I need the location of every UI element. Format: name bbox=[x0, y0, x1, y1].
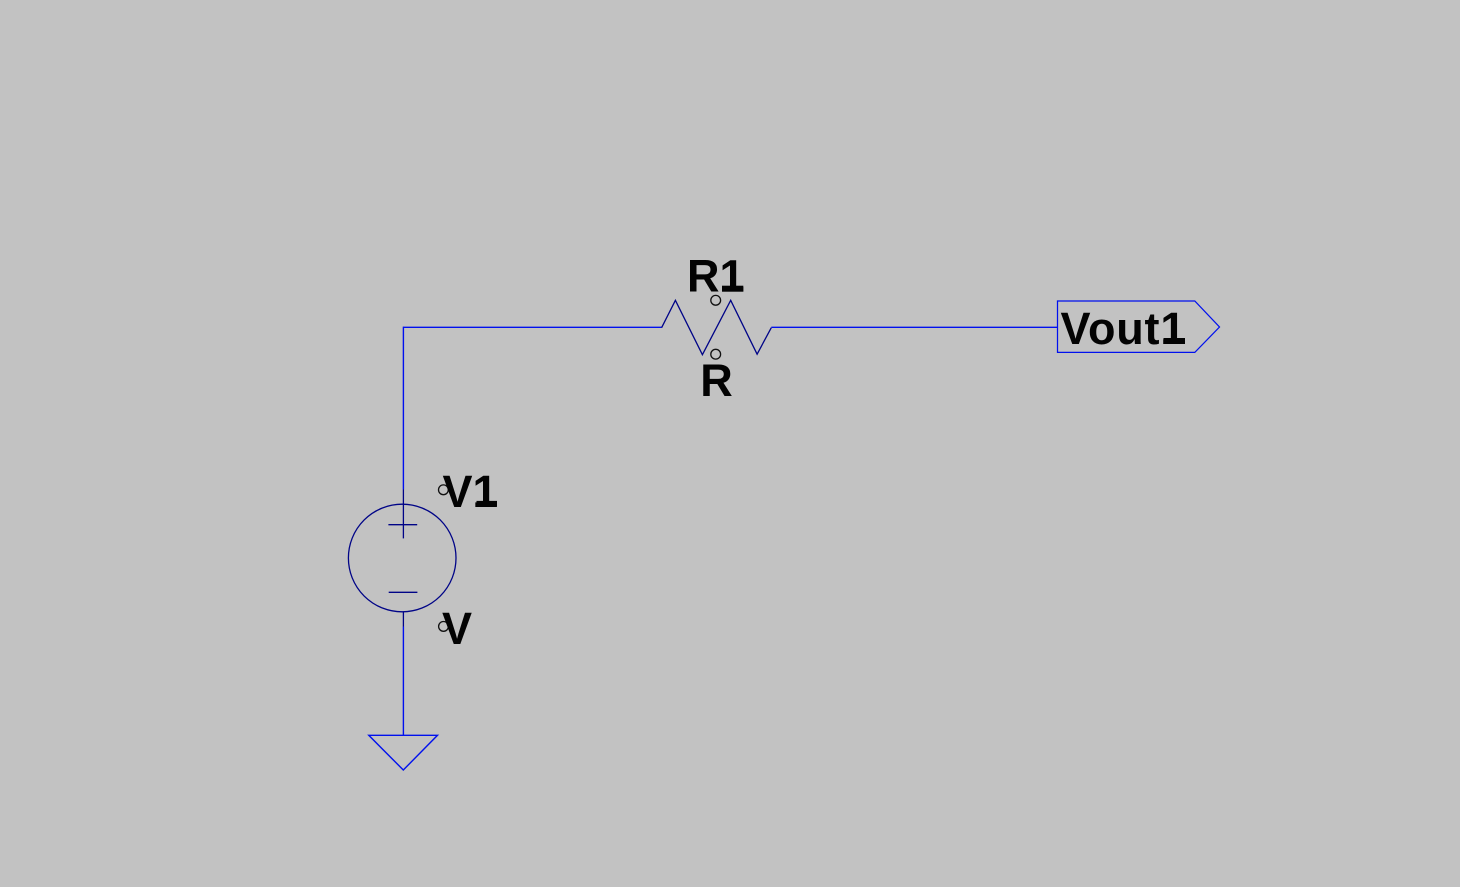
svg-text:Vout1: Vout1 bbox=[1061, 303, 1187, 354]
ground bbox=[369, 735, 438, 770]
wire: V1 bottom pin down to ground bbox=[402, 627, 404, 736]
node anchor above R1 bbox=[711, 295, 721, 305]
voltage source V1: bottom pin stub bbox=[402, 612, 404, 627]
wire: vertical from node A corner down to V1 top pin bbox=[402, 327, 404, 490]
wire: resistor right to Vout1 flag bbox=[771, 326, 1057, 328]
output port flag Vout1 (pentagon outline) bbox=[1058, 301, 1220, 352]
wire: top horizontal from node A corner to resistor R1 left terminal bbox=[403, 326, 661, 328]
voltage source V1: circle body bbox=[348, 504, 456, 612]
net label Vout1 bbox=[1061, 303, 1187, 354]
label R1 bbox=[687, 251, 745, 302]
label V1 bbox=[443, 466, 498, 517]
node anchor below R bbox=[711, 349, 721, 359]
voltage source V1: minus sign bbox=[389, 591, 418, 593]
voltage source V1: plus sign bar bbox=[388, 524, 417, 526]
node anchor left of V label bbox=[439, 622, 449, 632]
svg-text:V1: V1 bbox=[443, 466, 498, 517]
resistor R1 (zigzag body) bbox=[662, 300, 772, 354]
svg-text:R1: R1 bbox=[687, 251, 745, 302]
svg-text:V: V bbox=[442, 603, 472, 654]
voltage source V1: top pin stub bbox=[402, 490, 404, 539]
svg-text:R: R bbox=[700, 355, 733, 406]
node anchor left of V1 label bbox=[439, 485, 449, 495]
